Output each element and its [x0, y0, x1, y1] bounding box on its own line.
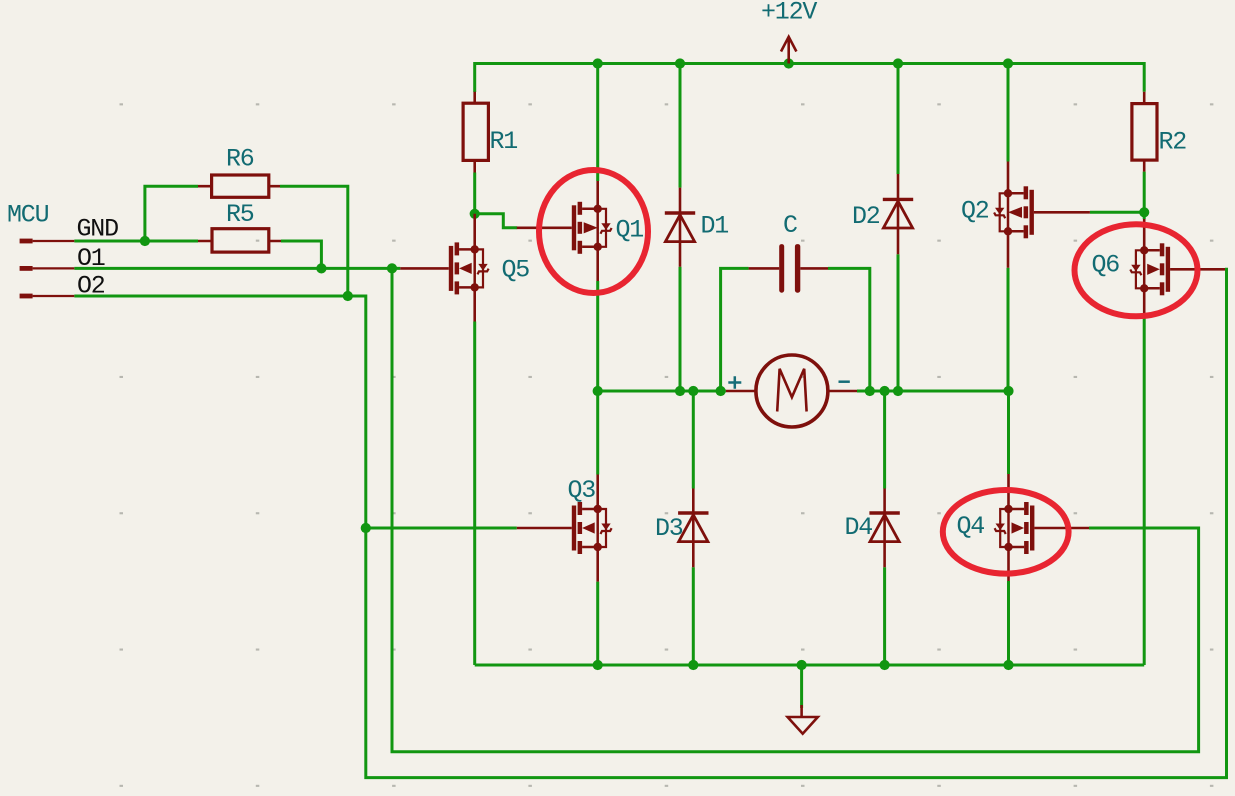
wire Q4 drain — [1007, 391, 1010, 474]
svg-text:C: C — [783, 211, 797, 240]
wire GND net from pin — [74, 240, 198, 243]
wire R6 right to O2 junction — [280, 186, 348, 296]
wire Q6 drain stub — [1143, 212, 1146, 219]
diode D4 — [869, 489, 899, 568]
wire Q6 source down — [1143, 314, 1146, 665]
svg-text:R1: R1 — [490, 127, 518, 156]
transistor Q5 — [400, 214, 488, 322]
svg-text:MCU: MCU — [7, 201, 49, 230]
junction O1 R5 — [316, 263, 326, 273]
junction rail D1 — [675, 58, 685, 68]
junction motor D3 — [688, 386, 698, 396]
wire O1 from pin — [74, 267, 400, 270]
wire Q3 source — [596, 582, 599, 665]
MCU pin O1 — [20, 266, 75, 271]
annotation ellipse around Q4 — [943, 490, 1069, 574]
wire Q1 drain to rail — [596, 64, 599, 182]
wire O1 branch to Q4 gate — [392, 268, 1199, 751]
wire R1 bottom to junction — [473, 173, 476, 214]
ground symbol — [788, 705, 818, 734]
wire Q3 drain — [596, 391, 599, 475]
wire +12V top rail — [475, 64, 1144, 93]
wire Q4 source — [1007, 581, 1010, 665]
junction O2 R6 — [343, 291, 353, 301]
resistor R2 — [1132, 92, 1157, 172]
resistor R5 — [198, 229, 281, 252]
wire Q2 gate to R2 junction — [1090, 211, 1144, 214]
junction motor C right — [865, 386, 875, 396]
wire Q5 source down — [473, 322, 476, 666]
diode D1 — [665, 188, 695, 267]
svg-text:R2: R2 — [1159, 128, 1187, 157]
svg-text:Q1: Q1 — [616, 216, 644, 245]
junction rail Q2 — [1003, 58, 1013, 68]
junction rail D2 — [893, 58, 903, 68]
junction rail +12V — [784, 58, 794, 68]
svg-text:Q6: Q6 — [1092, 251, 1120, 280]
MCU pin O2 — [20, 294, 75, 299]
power symbol +12V — [781, 37, 796, 64]
motor minus sign — [839, 380, 850, 383]
wire D4 top — [883, 391, 886, 489]
wire motor line right — [857, 390, 1009, 393]
svg-text:R5: R5 — [226, 200, 254, 229]
wire junction to Q1 gate jog — [475, 214, 518, 228]
junction motor D2 — [893, 386, 903, 396]
junction motor Q2 Q4 — [1003, 386, 1013, 396]
junction motor Q1 Q3 — [593, 386, 603, 396]
junction motor C left — [716, 386, 726, 396]
wire motor line left — [598, 390, 726, 393]
diode D3 — [678, 489, 708, 568]
wire O2 from pin — [74, 295, 348, 298]
svg-text:Q3: Q3 — [568, 476, 596, 505]
junction bottom D4 — [880, 660, 890, 670]
junction motor D1 — [675, 386, 685, 396]
wire capacitor left — [721, 268, 749, 391]
svg-text:Q5: Q5 — [502, 256, 530, 285]
capacitor C — [749, 244, 828, 293]
wire R2 bottom to junction — [1143, 172, 1146, 213]
junction GND R6 — [140, 236, 150, 246]
svg-text:Q2: Q2 — [961, 197, 989, 226]
transistor Q1 — [517, 181, 612, 281]
motor M1 — [726, 355, 857, 427]
wire ground stem — [800, 665, 803, 708]
wire Q1 source to motor node — [596, 281, 599, 391]
svg-text:D2: D2 — [852, 202, 880, 231]
svg-text:D4: D4 — [845, 513, 873, 542]
junction bottom D3 — [688, 660, 698, 670]
wire R6 left leg — [145, 186, 198, 241]
grid dots — [120, 103, 1214, 787]
junction O1 branch — [387, 263, 397, 273]
wire D4 bottom — [883, 567, 886, 665]
junction bottom Q4 — [1003, 660, 1013, 670]
wire D1 top — [679, 64, 682, 188]
annotation ellipse around Q6 — [1075, 224, 1198, 316]
annotation circle around Q1 — [539, 170, 648, 293]
svg-text:O1: O1 — [77, 244, 105, 273]
wire D2 top — [897, 64, 900, 175]
svg-text:D3: D3 — [655, 514, 683, 543]
svg-text:D1: D1 — [701, 212, 729, 241]
resistor R6 — [198, 175, 280, 197]
highlight ellipses — [539, 170, 1198, 574]
MCU pin GND — [20, 239, 75, 244]
wire Q2 source to motor node — [1007, 268, 1010, 391]
wire D3 top — [692, 391, 695, 489]
svg-text:Q4: Q4 — [957, 512, 985, 541]
wire D2 bottom — [897, 254, 900, 391]
wire O2 branch down to Q6 gate — [348, 269, 1227, 777]
resistor R1 — [463, 92, 488, 173]
wire R5 right to O1 junction — [281, 241, 321, 268]
junction O2 Q3-gate — [361, 523, 371, 533]
junction bottom Q3 — [593, 660, 603, 670]
wire bottom rail — [475, 664, 1144, 667]
wire capacitor right — [828, 268, 870, 391]
wire D1 bottom — [679, 267, 682, 391]
svg-text:O2: O2 — [77, 272, 105, 301]
junction bottom ground — [797, 660, 807, 670]
svg-text:+12V: +12V — [761, 0, 817, 27]
wire Q3 gate — [366, 527, 517, 530]
transistor Q3 — [517, 475, 612, 582]
junction R2 Q2-gate Q6 — [1139, 207, 1149, 217]
diode D2 — [883, 174, 913, 254]
transistor Q4 — [995, 474, 1089, 581]
svg-text:R6: R6 — [226, 145, 254, 174]
wire D3 bottom — [692, 567, 695, 665]
transistor Q6 — [1130, 219, 1225, 314]
junction rail Q1 — [593, 58, 603, 68]
transistor Q2 — [994, 162, 1090, 268]
svg-text:GND: GND — [77, 215, 119, 244]
wire Q2 drain to rail — [1007, 64, 1010, 162]
motor plus sign — [728, 376, 741, 389]
junction R1 Q5 Q1-gate — [470, 209, 480, 219]
junction motor D4 — [880, 386, 890, 396]
